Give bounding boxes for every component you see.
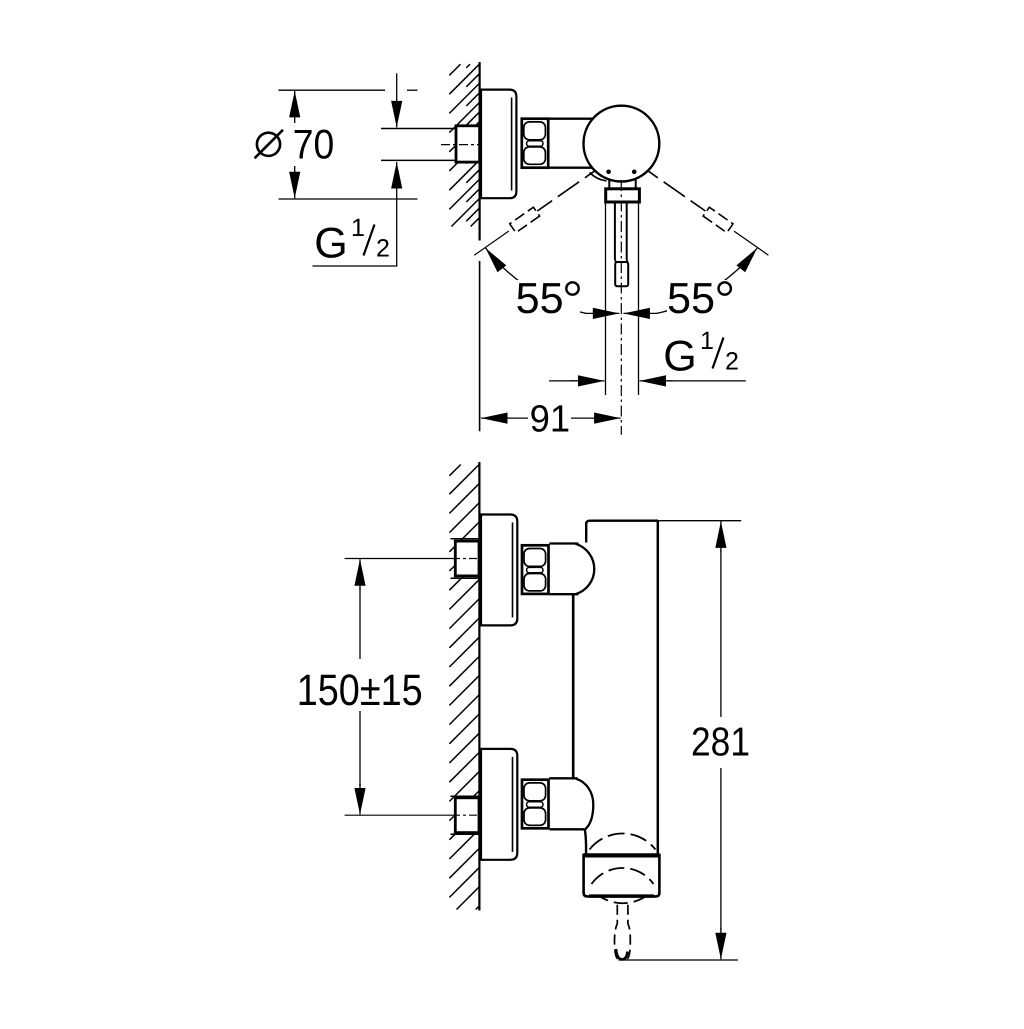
handle collar upper bbox=[608, 180, 610, 189]
label G 1/2 (upper) leader bbox=[313, 265, 398, 267]
lower union shoulder bbox=[549, 777, 577, 779]
handle shaft bbox=[614, 202, 616, 260]
hose nipple bottom (solid) bbox=[616, 949, 628, 959]
neck to ball body (top view) bbox=[550, 118, 599, 120]
55deg outward arrow right bbox=[745, 248, 757, 264]
svg-text:55: 55 bbox=[516, 275, 564, 323]
dim 91 bbox=[481, 417, 509, 419]
neck/ball intersection arc bbox=[590, 173, 607, 182]
body left edge above upper union bbox=[585, 522, 587, 543]
hidden ball arc inside cup bbox=[592, 862, 654, 884]
ball body (top view) bbox=[584, 106, 660, 182]
svg-text:281: 281 bbox=[691, 719, 750, 765]
centre line upper pipe / ext 150 bbox=[345, 558, 452, 560]
G1/2 outlet extension lines bbox=[605, 203, 607, 395]
55deg outward arrow left bbox=[486, 248, 498, 264]
label Ø 70 bbox=[257, 133, 280, 156]
swung handle grip outline left bbox=[510, 207, 540, 233]
55deg arc leader left bbox=[489, 254, 586, 313]
55deg arc leader right bbox=[657, 254, 754, 313]
svg-text:91: 91 bbox=[530, 399, 571, 441]
supply pipe in wall (lower) bbox=[451, 795, 480, 797]
svg-text:G: G bbox=[663, 333, 696, 381]
svg-text:2: 2 bbox=[376, 235, 390, 263]
label 55deg right bbox=[667, 280, 733, 315]
55deg inner arrow left bbox=[585, 312, 619, 314]
outlet neck left edge bbox=[585, 829, 586, 855]
upper union shoulder bbox=[549, 542, 578, 544]
dim Ø70 extension lines bbox=[279, 89, 386, 91]
wall face line (top view) bbox=[479, 62, 481, 241]
wall hatching (front view) bbox=[449, 465, 460, 476]
wall hatching (top view) bbox=[449, 64, 460, 75]
handle swing dashed line left bbox=[585, 170, 596, 178]
escutcheon flange (upper) bbox=[481, 515, 517, 626]
svg-text:G: G bbox=[314, 220, 347, 268]
svg-text:150±15: 150±15 bbox=[297, 666, 423, 715]
body left edge between unions bbox=[572, 594, 575, 778]
body top edge + 281 top extension bbox=[586, 521, 658, 524]
label 55deg left bbox=[514, 280, 580, 315]
dim 150±15 line+arrows bbox=[359, 559, 361, 590]
svg-text:70: 70 bbox=[293, 121, 335, 168]
dim G1/2 outlet arrows bbox=[549, 380, 584, 382]
handle centre line bbox=[620, 180, 622, 435]
outlet cup bbox=[584, 855, 660, 897]
svg-text:2: 2 bbox=[725, 348, 739, 376]
hidden swivel ball top arc bbox=[590, 833, 656, 849]
handle collar lower (bold) bbox=[606, 189, 640, 202]
pipe centre line (top view) bbox=[441, 144, 480, 146]
escutcheon flange (lower) bbox=[481, 749, 517, 860]
wall face line (front view) bbox=[478, 462, 480, 911]
pipe socket in wall (top view) bbox=[456, 126, 480, 162]
svg-text:1: 1 bbox=[351, 214, 365, 242]
union nut (lower) bbox=[522, 780, 549, 829]
union nut (upper) bbox=[522, 545, 549, 594]
dim Ø70 dimension line with arrows bbox=[294, 91, 296, 123]
hidden ball bottom arc bbox=[596, 894, 650, 904]
cartridge dots bbox=[606, 170, 611, 175]
supply pipe in wall (upper) bbox=[451, 538, 480, 540]
handle swing dashed line right bbox=[647, 170, 658, 178]
body right edge bbox=[657, 521, 660, 855]
svg-text:55: 55 bbox=[667, 275, 715, 323]
union nut (top view) bbox=[522, 119, 548, 168]
dim 281 bottom extension bbox=[619, 959, 739, 961]
55deg inner arrow right bbox=[623, 312, 657, 314]
dim 281 line+arrows bbox=[720, 521, 722, 552]
dim G1/2 pipe arrows bbox=[396, 73, 398, 127]
swung handle grip outline right bbox=[703, 207, 733, 233]
svg-text:1: 1 bbox=[700, 327, 714, 355]
supply pipe in wall (top view) bbox=[381, 128, 456, 130]
handle grip tip bbox=[615, 260, 616, 263]
hidden hose cone (dashed) bbox=[615, 905, 619, 960]
centre line lower pipe / ext 150 bbox=[345, 814, 452, 816]
escutcheon flange (top view) bbox=[481, 90, 516, 199]
